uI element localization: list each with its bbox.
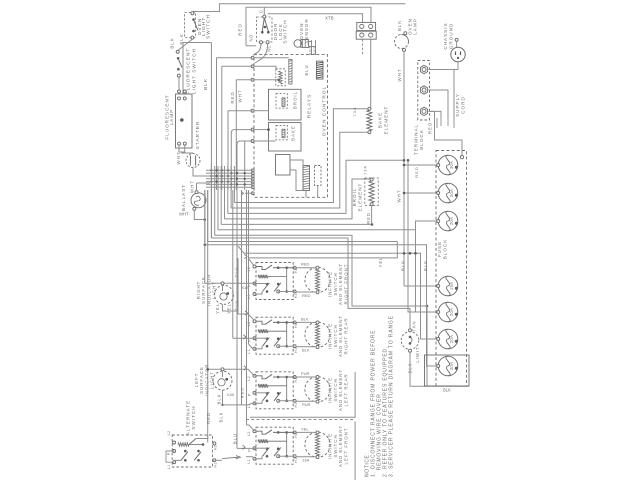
fuse 20A at y312 (438, 302, 458, 322)
wire control connector row6 (251, 140, 254, 143)
bus b4 to broil top (225, 179, 373, 219)
alternate switch coil (178, 443, 189, 447)
heater bake element (368, 107, 371, 110)
fuse 30A at y165 (438, 155, 458, 175)
svg-text:20A: 20A (449, 189, 454, 197)
svg-text:L2: L2 (247, 321, 251, 326)
infinite switch box right rear (256, 317, 293, 354)
wire WHT oven lamp down (403, 51, 405, 286)
alternate switch contacts (184, 450, 187, 453)
wire control interior row3 (254, 79, 279, 81)
wire TAN to RR L2 (238, 258, 255, 321)
svg-text:H1: H1 (294, 457, 298, 462)
infinite switch contacts left front (256, 431, 266, 434)
svg-text:AND ELEMENT: AND ELEMENT (338, 425, 343, 467)
svg-text:LIMIT: LIMIT (415, 346, 420, 362)
wire supply N (428, 90, 448, 118)
svg-text:WHT: WHT (190, 180, 195, 193)
wire supply L1 (428, 70, 454, 119)
bus b8 down x348 (211, 238, 410, 308)
svg-text:BLOCK: BLOCK (419, 129, 424, 150)
switch S3 door lock switch (257, 17, 273, 42)
svg-text:BROIL: BROIL (292, 91, 297, 109)
ladder connector row y193 (251, 192, 254, 195)
svg-text:PUR: PUR (301, 371, 310, 376)
svg-text:BLK: BLK (302, 348, 310, 353)
infinite switch lower contacts left front (266, 447, 269, 450)
wire door lock bottom jog (246, 45, 256, 47)
svg-text:20A: 20A (449, 217, 454, 225)
svg-text:SENSOR: SENSOR (304, 18, 309, 43)
bus b10 to v426.5 (205, 245, 438, 366)
svg-text:INFINITE: INFINITE (328, 433, 333, 459)
svg-text:WHT: WHT (238, 90, 243, 103)
svg-text:BLK: BLK (170, 37, 175, 48)
svg-text:YEL: YEL (226, 303, 231, 314)
svg-text:PUR: PUR (302, 402, 311, 407)
wire y258 bus (248, 242, 397, 258)
svg-text:INFINITE: INFINITE (328, 377, 333, 403)
svg-text:TAN: TAN (412, 320, 417, 331)
svg-text:BLK: BLK (218, 412, 223, 423)
relay K1 broil relay (269, 89, 302, 120)
bus b5 broil bottom return (221, 223, 372, 225)
svg-text:SWITCH: SWITCH (333, 272, 338, 295)
wire RR P feed (232, 190, 234, 338)
svg-text:WHT: WHT (396, 190, 401, 203)
svg-text:SURFACE: SURFACE (201, 276, 206, 304)
sensor RT1 oven sensor (294, 40, 302, 48)
bus b3 to broil feed (228, 160, 404, 213)
svg-text:H2: H2 (214, 445, 218, 450)
wire control connector row2 (251, 65, 254, 68)
svg-text:LEFT REAR: LEFT REAR (344, 373, 349, 406)
svg-text:FUSE: FUSE (437, 241, 442, 257)
svg-text:ALTERNATE: ALTERNATE (186, 400, 191, 435)
svg-text:YEL: YEL (215, 303, 220, 314)
wire RED terminal to fuse top (430, 111, 462, 155)
svg-text:30A: 30A (449, 161, 454, 169)
svg-text:RED: RED (230, 91, 235, 103)
wire v410 limit feed (409, 308, 411, 330)
relay contacts hatched right (303, 166, 310, 191)
wire v248 to RR L1 (248, 190, 250, 344)
svg-text:C: C (259, 10, 264, 13)
switch S2 fluorescent light switch (176, 50, 179, 53)
wire BLK oven light circuit top (193, 4, 406, 12)
svg-text:CORD: CORD (461, 96, 466, 114)
wire vertical v216 (216, 58, 218, 190)
svg-text:L1: L1 (247, 349, 251, 354)
wire y253 bus with dots (238, 246, 438, 339)
svg-text:P: P (248, 393, 252, 396)
tap to RF L2 (248, 258, 255, 267)
svg-text:WHT: WHT (397, 69, 402, 82)
terminal TB-2 (420, 86, 427, 94)
wire control interior row2 (254, 66, 276, 70)
svg-text:BLK: BLK (216, 394, 221, 405)
wire relay outputs (290, 160, 303, 166)
infinite switch coil left rear (258, 384, 268, 388)
wire NC to control (255, 44, 268, 63)
svg-text:RED: RED (313, 45, 317, 55)
wire vertical v236 (235, 80, 237, 190)
svg-text:BAKE: BAKE (378, 112, 383, 128)
surface element left rear (305, 377, 330, 402)
svg-text:H1: H1 (294, 293, 298, 298)
svg-text:20A: 20A (449, 362, 454, 370)
wire ground to terminal block (454, 62, 458, 70)
supply cord exit (437, 118, 454, 128)
wire fluorescent switch to lamp (178, 77, 180, 90)
terminal block TB dashed box (418, 61, 430, 121)
wire v427 to bottom fuse area (427, 306, 469, 386)
svg-text:73A: 73A (364, 165, 368, 175)
svg-text:L2: L2 (247, 376, 251, 381)
svg-text:AND ELEMENT: AND ELEMENT (338, 263, 343, 305)
svg-text:RED: RED (366, 212, 371, 224)
surface element right front (305, 267, 330, 292)
svg-text:INDICATOR: INDICATOR (206, 274, 211, 307)
bus b9 to v427 (208, 241, 398, 243)
terminal TB-3 (420, 107, 427, 115)
svg-text:AND ELEMENT: AND ELEMENT (338, 315, 343, 357)
infinite switch coil right front (258, 275, 268, 279)
svg-text:LIGHT: LIGHT (212, 281, 217, 299)
svg-text:LAMP: LAMP (412, 18, 417, 35)
svg-text:RED: RED (308, 45, 312, 55)
wire supply L2 (428, 111, 441, 118)
relay hatch bar top (289, 59, 292, 84)
infinite switch contacts right rear (256, 321, 266, 324)
svg-text:13A: 13A (302, 458, 309, 463)
svg-text:X1B: X1B (227, 392, 235, 397)
svg-text:AND ELEMENT: AND ELEMENT (338, 369, 343, 411)
svg-text:SWITCH: SWITCH (333, 434, 338, 457)
svg-text:RIGHT FRONT: RIGHT FRONT (344, 264, 349, 305)
oven control dashed enclosure (254, 55, 328, 198)
fuse bottom solid box (425, 355, 470, 386)
right surface indicator light (221, 282, 224, 285)
svg-text:WHT: WHT (179, 212, 189, 217)
fuse 15A at y286 (438, 276, 458, 296)
fuse 20A at y193 (438, 183, 458, 203)
bus wire nest left verticals (204, 190, 206, 246)
svg-text:STARTER: STARTER (195, 121, 201, 150)
infinite switch box left front (256, 427, 293, 464)
fuse 20A at y366 (438, 356, 458, 376)
svg-text:H1: H1 (294, 347, 298, 352)
svg-text:H2: H2 (294, 377, 298, 382)
lamp FL1 fluorescent lamp (178, 90, 181, 93)
svg-text:BLK: BLK (443, 388, 451, 393)
svg-text:SUPPLY: SUPPLY (455, 93, 460, 117)
wire BLK to fluorescent switch (178, 39, 192, 50)
svg-text:LEFT: LEFT (194, 373, 199, 388)
wire control connector row5 (251, 128, 254, 131)
infinite switch box left rear (256, 372, 293, 409)
relay contact block lower (276, 155, 291, 176)
wire starter to ladder (193, 168, 206, 177)
svg-text:ELEMENT: ELEMENT (358, 183, 363, 212)
svg-text:XTB: XTB (325, 16, 334, 21)
infinite switch coil left front (258, 439, 268, 443)
svg-text:H2: H2 (294, 268, 298, 273)
svg-text:RELAYS: RELAYS (307, 94, 313, 119)
wire left light bottom (222, 390, 224, 405)
wire ballast top (197, 182, 211, 184)
svg-text:RIGHT: RIGHT (196, 281, 201, 300)
wire connector down RED dashed (362, 39, 364, 54)
svg-text:BLOCK: BLOCK (443, 239, 448, 260)
wire v237 to LF P BLU (236, 190, 238, 448)
svg-text:BLU: BLU (304, 64, 309, 75)
svg-text:CHASSIS: CHASSIS (443, 22, 448, 49)
svg-text:L2: L2 (247, 431, 251, 436)
unit group solid box left front (354, 421, 356, 480)
svg-text:RED: RED (301, 262, 310, 267)
svg-text:RIGHT REAR: RIGHT REAR (344, 318, 349, 355)
wire vertical v221 (221, 66, 223, 190)
wire v404 WHT lower (404, 164, 438, 166)
svg-text:SWITCH: SWITCH (191, 405, 196, 429)
svg-text:RED: RED (240, 387, 245, 398)
svg-text:SWITCH: SWITCH (206, 14, 212, 39)
wire v246 to LF L2 (246, 190, 248, 425)
terminal TB-1 (420, 65, 427, 73)
sensor dashed box in control (276, 69, 285, 86)
lamp L1 oven lamp (404, 32, 407, 35)
infinite switch box right front (256, 263, 293, 300)
svg-text:INFINITE: INFINITE (328, 323, 333, 349)
svg-text:BLK: BLK (397, 20, 402, 31)
svg-text:NO: NO (248, 34, 253, 41)
svg-text:BLK: BLK (401, 260, 406, 271)
infinite switch lower contacts right front (266, 283, 269, 286)
alternate switch dashed box (172, 435, 212, 467)
surface element left front (305, 432, 330, 457)
wire lamp to starter (179, 145, 185, 152)
svg-text:20A: 20A (449, 308, 454, 316)
starter ST1 (186, 154, 200, 168)
svg-text:SWITCH: SWITCH (333, 378, 338, 401)
bus b2 to bake bottom (231, 132, 369, 208)
svg-text:L1: L1 (167, 464, 171, 469)
infinite switch coil right rear (258, 329, 268, 333)
fuse 20A at y339 (438, 329, 458, 349)
wire v204 to RF P (204, 190, 206, 283)
svg-text:BLK: BLK (301, 316, 309, 321)
svg-text:FLUORESCENT: FLUORESCENT (186, 48, 192, 95)
wire vertical v211 BLK (210, 43, 212, 239)
wire RED to alternate switch (207, 369, 209, 442)
fuse block dashed enclosure (436, 151, 467, 387)
wire v241 to LR L1 (241, 190, 243, 405)
svg-text:RED: RED (302, 293, 311, 298)
svg-text:P: P (167, 452, 171, 455)
wire control interior row1 (254, 57, 289, 59)
svg-text:LIGHT SWITCH: LIGHT SWITCH (192, 48, 198, 94)
ladder bundle horizontals to control connectors (251, 169, 254, 172)
svg-text:20A: 20A (449, 335, 454, 343)
svg-text:73A: 73A (353, 107, 357, 117)
wire v207 long to left light (207, 190, 209, 369)
svg-text:YEL: YEL (378, 257, 383, 268)
ground chassis ground symbol (455, 38, 458, 41)
svg-text:LIGHT: LIGHT (210, 371, 215, 389)
svg-text:BROIL: BROIL (352, 188, 357, 207)
svg-text:15A: 15A (449, 282, 454, 290)
svg-text:H2: H2 (294, 322, 298, 327)
svg-text:H2: H2 (294, 432, 298, 437)
left surface indicator light (221, 368, 224, 371)
svg-text:WHT: WHT (176, 152, 181, 165)
wire v408 fuse feed (408, 160, 438, 312)
bus b6 to fuse 30A feed (218, 221, 438, 230)
svg-text:BLK: BLK (203, 78, 209, 90)
svg-text:3. SERVICER PLEASE RETURN DIAG: 3. SERVICER PLEASE RETURN DIAGRAM TO RAN… (389, 315, 395, 477)
svg-text:SURFACE: SURFACE (199, 366, 204, 394)
svg-text:SWITCH: SWITCH (282, 19, 287, 43)
wire vertical v244 (244, 141, 246, 190)
wire ballast bottom (194, 210, 205, 219)
ballast B1 (191, 193, 206, 208)
wire broil bottom RED (371, 206, 373, 225)
infinite switch contacts right front (256, 267, 266, 270)
unit group solid box left rear (250, 372, 355, 417)
svg-text:H1: H1 (294, 402, 298, 407)
wire control connector row1 (251, 56, 254, 59)
wire control connector row3 (251, 78, 254, 81)
svg-text:L1: L1 (247, 294, 251, 299)
wire rectangle to ladder vertical (183, 43, 211, 95)
svg-text:H1: H1 (214, 462, 218, 467)
heater broil element (365, 178, 378, 206)
wire vertical v228 (227, 111, 229, 190)
wire light bottom YEL (223, 304, 239, 311)
svg-text:LEFT FRONT: LEFT FRONT (344, 428, 349, 465)
svg-text:BLU: BLU (233, 433, 238, 444)
svg-text:BLK: BLK (423, 260, 428, 271)
svg-text:L1: L1 (247, 459, 251, 464)
unit group dashed separator (246, 419, 355, 421)
svg-text:YEL: YEL (301, 426, 309, 431)
svg-text:L2: L2 (247, 267, 251, 272)
bus b1 to bake top (234, 109, 369, 203)
switch S1 oven light switch (185, 13, 196, 38)
wire H1 arrow to LF (214, 459, 222, 461)
wire NO to control (254, 44, 262, 56)
svg-text:RED: RED (206, 412, 211, 424)
wire connector down to bake (370, 39, 372, 109)
wire sensor leads RED (311, 40, 313, 55)
svg-text:ELEMENT: ELEMENT (383, 106, 388, 135)
svg-text:INFINITE: INFINITE (328, 271, 333, 297)
infinite switch lower contacts left rear (266, 392, 269, 395)
svg-text:P: P (248, 449, 252, 452)
svg-text:BAKE: BAKE (290, 125, 295, 141)
svg-text:BALLAST: BALLAST (181, 184, 186, 211)
svg-text:RED: RED (428, 122, 433, 134)
svg-text:OVEN CONTROL: OVEN CONTROL (321, 86, 327, 136)
wire vertical v234 arc (231, 130, 234, 190)
wire limit bottom to fuse bus (410, 352, 427, 386)
wire control connector row4 (251, 109, 254, 112)
bus b7 down x352 (215, 235, 427, 306)
infinite switch contacts left rear (256, 376, 266, 379)
svg-text:LAMP: LAMP (169, 109, 174, 126)
svg-text:GROUND: GROUND (448, 23, 453, 49)
fuse 20A at y221 (438, 211, 458, 231)
wire vertical v240 arc (237, 141, 240, 190)
wire RED door lock feed (246, 7, 371, 46)
wire RED to connector (268, 14, 363, 23)
svg-text:L2: L2 (167, 431, 171, 436)
svg-text:SWITCH: SWITCH (333, 324, 338, 347)
connector XTB terminal block (357, 22, 376, 30)
infinite switch lower contacts right rear (266, 337, 269, 340)
ladder junction dots (210, 169, 212, 171)
svg-text:RED: RED (414, 166, 419, 177)
wire LF L1 feed (246, 456, 253, 458)
svg-text:RED: RED (237, 23, 242, 36)
surface element right rear (305, 322, 330, 347)
relay K2 bake relay (269, 123, 302, 151)
switch limit switch (401, 332, 419, 350)
relay connector hatched (316, 61, 323, 79)
svg-text:TERMINAL: TERMINAL (414, 124, 419, 155)
